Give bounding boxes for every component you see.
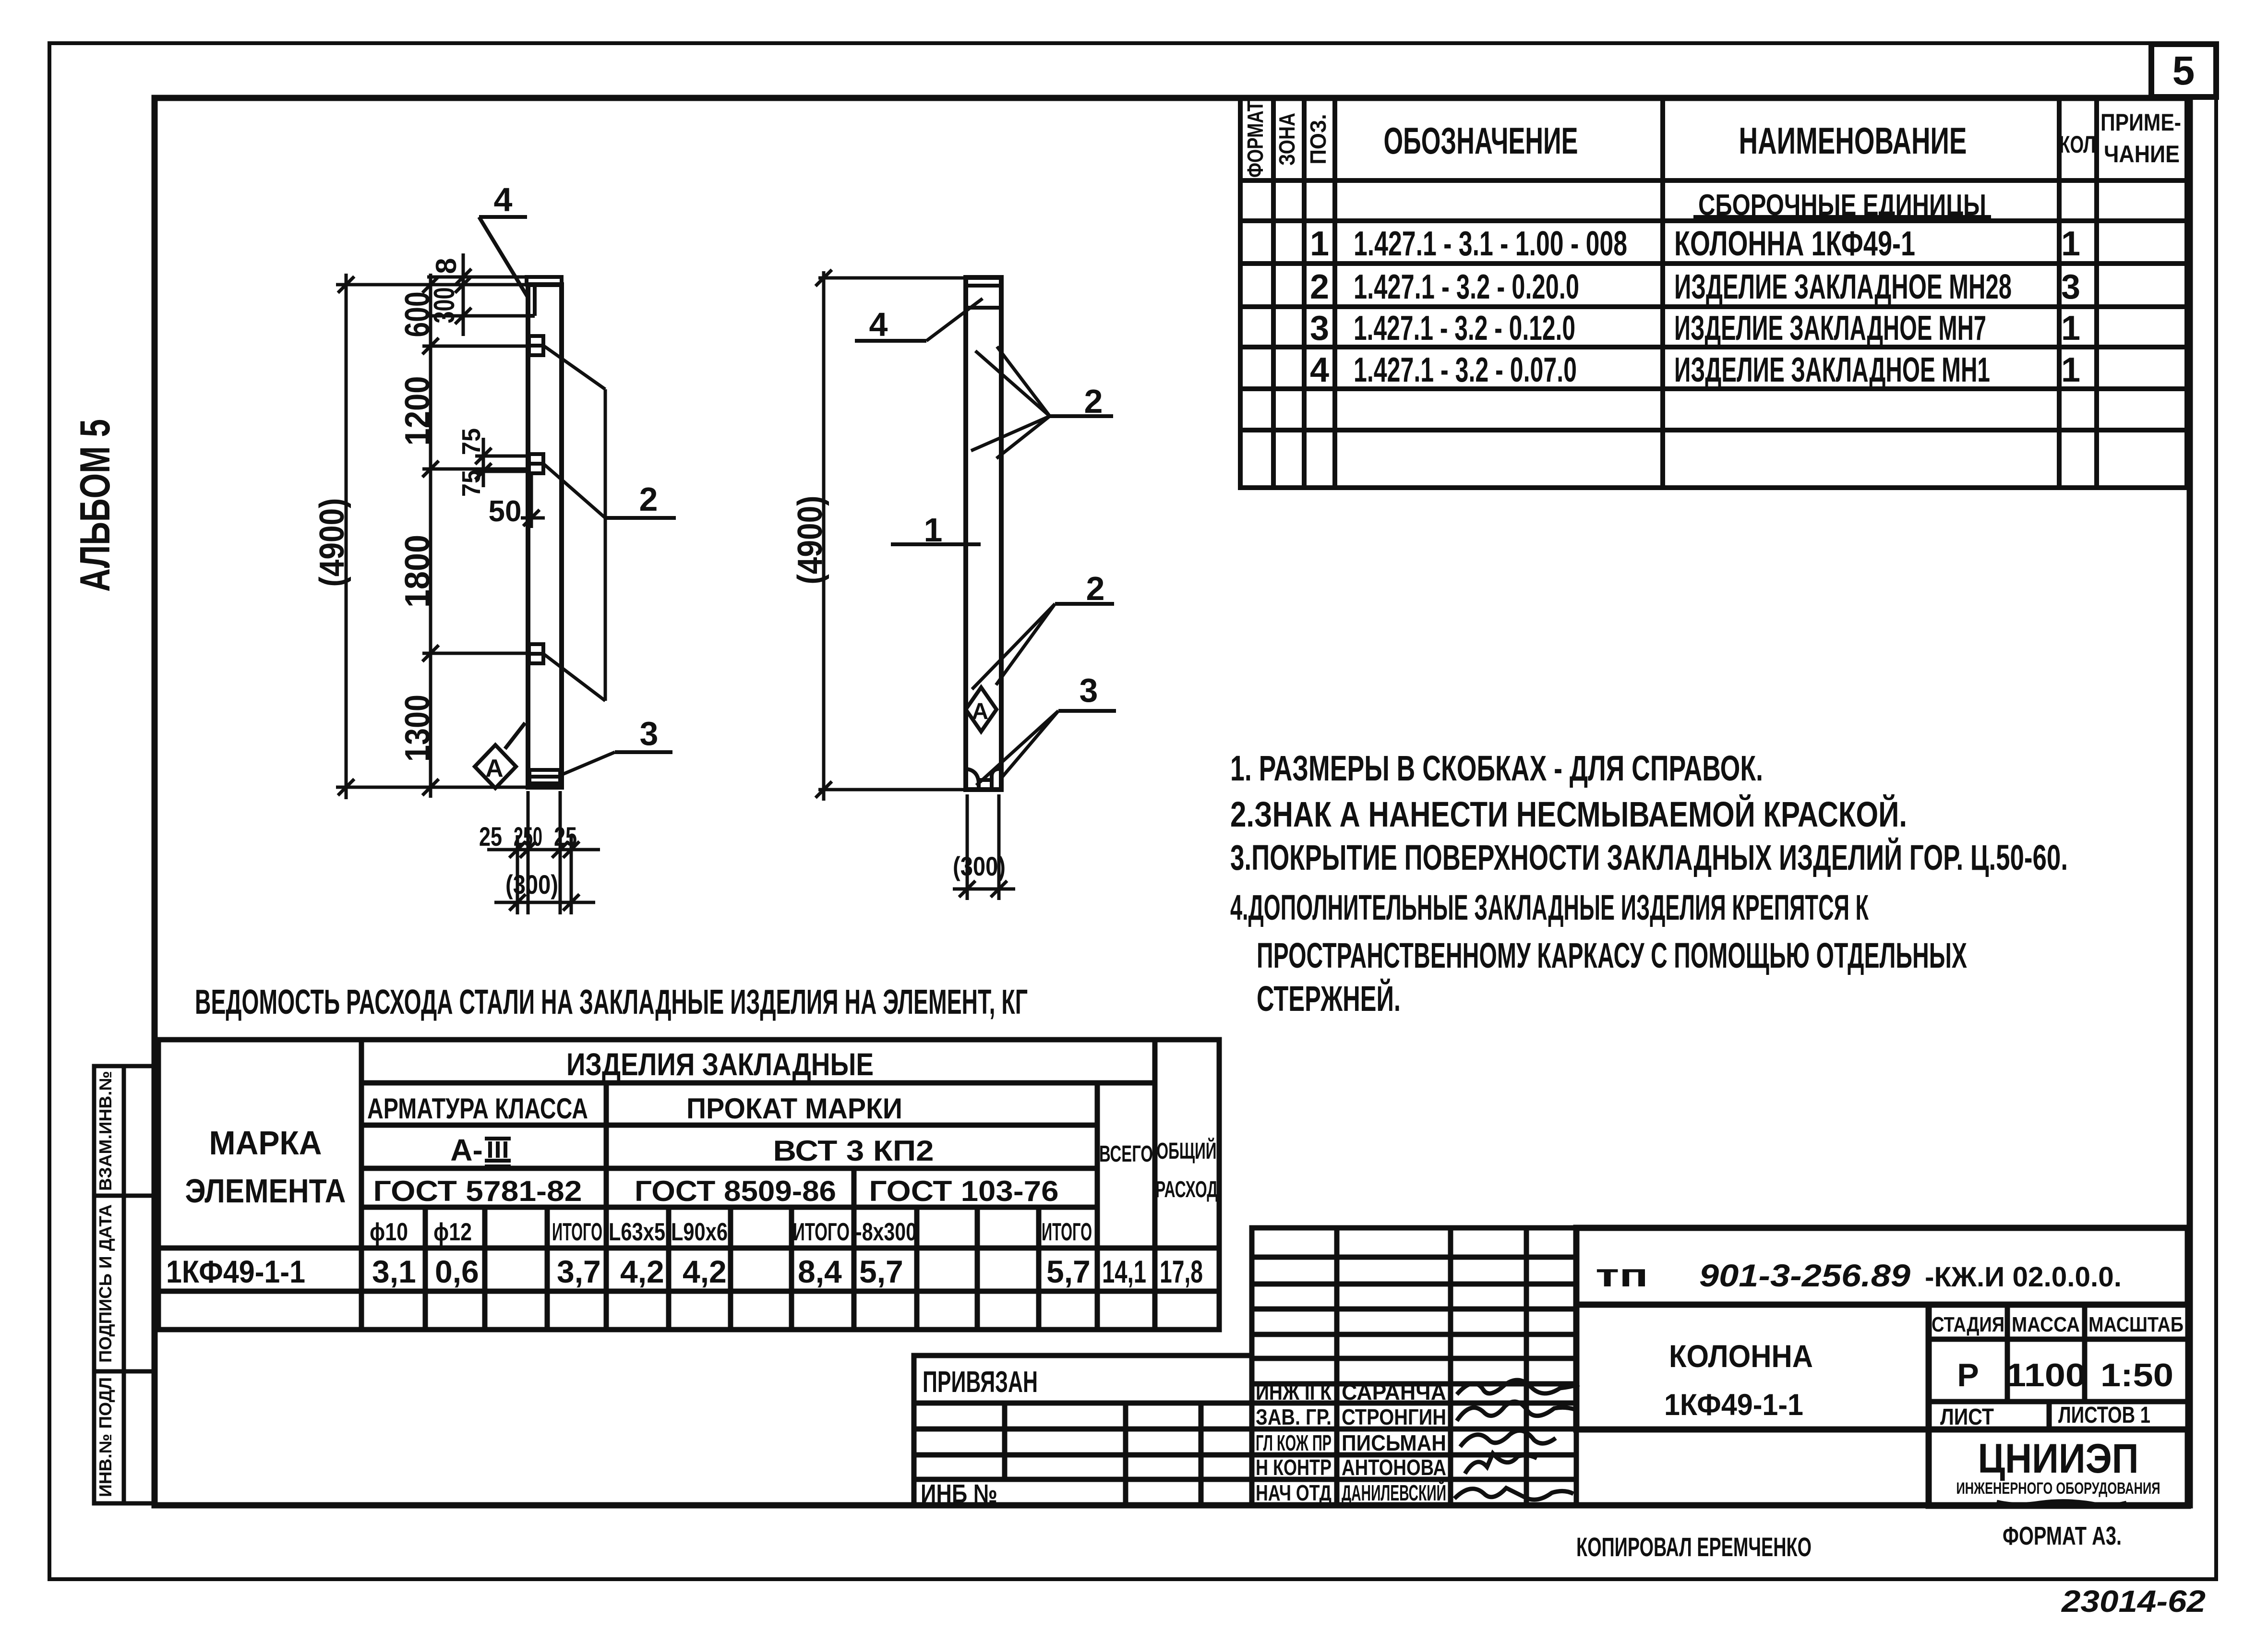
svg-text:2.ЗНАК А НАНЕСТИ НЕСМЫВА: 2.ЗНАК А НАНЕСТИ НЕСМЫВАЕМОЙ КРАСКОЙ. xyxy=(1230,794,1907,834)
leader 2 view1 xyxy=(543,346,676,701)
svg-text:5: 5 xyxy=(2172,48,2195,93)
document number cell xyxy=(1576,1228,2188,1305)
svg-text:ДАНИЛЕВСКИЙ: ДАНИЛЕВСКИЙ xyxy=(1342,1480,1446,1505)
svg-text:3: 3 xyxy=(640,715,659,752)
leader 3 view2 xyxy=(976,672,1116,785)
title block bottom left cell line xyxy=(1576,1427,1929,1433)
svg-text:1.427.1 - 3.1 - 1.00 - 008: 1.427.1 - 3.1 - 1.00 - 008 xyxy=(1354,225,1627,263)
svg-text:ИТОГО: ИТОГО xyxy=(552,1218,602,1246)
svg-text:3: 3 xyxy=(1310,309,1329,348)
svg-text:ГЛ КОЖ ПР: ГЛ КОЖ ПР xyxy=(1256,1430,1332,1455)
svg-text:1: 1 xyxy=(2061,309,2080,348)
svg-text:3: 3 xyxy=(1080,672,1098,709)
leader 2 upper view2 xyxy=(971,347,1113,458)
list row labels xyxy=(1940,1403,2150,1430)
svg-text:РАСХОД: РАСХОД xyxy=(1155,1177,1218,1202)
svg-text:1: 1 xyxy=(2061,225,2080,263)
svg-text:25: 25 xyxy=(554,821,577,852)
dim 75 75 view1 xyxy=(475,438,529,487)
svg-text:ФОРМАТ: ФОРМАТ xyxy=(1243,101,1268,178)
steel table grid xyxy=(158,1040,1219,1330)
svg-text:НАИМЕНОВАНИЕ: НАИМЕНОВАНИЕ xyxy=(1739,120,1967,162)
svg-text:ЗОНА: ЗОНА xyxy=(1274,113,1299,166)
leader 4 view2 xyxy=(855,299,983,343)
svg-text:ЦНИИЭП: ЦНИИЭП xyxy=(1978,1436,2139,1482)
stadia labels xyxy=(1932,1313,2184,1336)
spec row 1 kolonna xyxy=(1310,225,2080,263)
extension lines view2 xyxy=(818,278,966,790)
spec row 4 mn1 xyxy=(1310,351,2080,389)
stadia values xyxy=(1957,1357,2173,1393)
svg-text:ВСТ 3 КП2: ВСТ 3 КП2 xyxy=(773,1135,934,1167)
svg-text:КОЛ: КОЛ xyxy=(2059,131,2096,158)
svg-text:3.ПОКРЫТИЕ ПОВЕРХНОСТИ ЗАКЛА: 3.ПОКРЫТИЕ ПОВЕРХНОСТИ ЗАКЛАДНЫХ ИЗДЕЛИЙ… xyxy=(1230,837,2068,877)
svg-text:ИНВ.№ ПОДЛ: ИНВ.№ ПОДЛ xyxy=(96,1377,115,1497)
bottom extension lines view2 xyxy=(967,794,999,900)
svg-text:14,1: 14,1 xyxy=(1102,1254,1146,1289)
drawing frame xyxy=(155,98,2190,1505)
dim 4900 line view2 xyxy=(822,271,826,801)
svg-text:МАРКА: МАРКА xyxy=(209,1124,322,1162)
svg-text:5,7: 5,7 xyxy=(1046,1254,1091,1289)
steel table headers xyxy=(185,1046,1218,1210)
svg-text:ИНБ №: ИНБ № xyxy=(921,1479,997,1508)
svg-text:5,7: 5,7 xyxy=(859,1254,903,1289)
steel table subheaders xyxy=(370,1218,1092,1246)
svg-text:901-3-256.89: 901-3-256.89 xyxy=(1699,1258,1910,1293)
svg-text:1100: 1100 xyxy=(2005,1357,2086,1393)
svg-text:-8x300: -8x300 xyxy=(855,1218,917,1246)
svg-text:-КЖ.И 02.0.0.0.: -КЖ.И 02.0.0.0. xyxy=(1925,1261,2122,1293)
svg-text:3,7: 3,7 xyxy=(557,1254,601,1289)
stamp box inv no podl xyxy=(94,1371,155,1503)
svg-text:250: 250 xyxy=(514,821,542,852)
svg-text:ИТОГО: ИТОГО xyxy=(793,1218,850,1246)
svg-text:Р: Р xyxy=(1957,1357,1979,1393)
svg-text:1. РАЗМЕРЫ В СКОБКАХ - ДЛЯ: 1. РАЗМЕРЫ В СКОБКАХ - ДЛЯ СПРАВОК. xyxy=(1230,748,1763,788)
spec subtitle sborochnye edinitsy xyxy=(1693,189,1991,222)
svg-text:2: 2 xyxy=(1310,268,1329,306)
sign A diamond view1 xyxy=(475,723,525,788)
top plate lines view2 xyxy=(966,286,1001,308)
svg-text:ВЗАМ.ИНВ.№: ВЗАМ.ИНВ.№ xyxy=(96,1071,115,1191)
svg-text:СТАДИЯ: СТАДИЯ xyxy=(1932,1313,2004,1336)
svg-text:ОБОЗНАЧЕНИЕ: ОБОЗНАЧЕНИЕ xyxy=(1384,120,1578,162)
stadia massa masshtab cells xyxy=(1929,1305,2188,1429)
svg-text:4.ДОПОЛНИТЕЛЬНЫЕ ЗАКЛАДНЫЕ И: 4.ДОПОЛНИТЕЛЬНЫЕ ЗАКЛАДНЫЕ ИЗДЕЛИЯ КРЕПЯ… xyxy=(1230,888,1869,927)
svg-text:ПИСЬМАН: ПИСЬМАН xyxy=(1342,1430,1446,1455)
svg-text:4,2: 4,2 xyxy=(683,1254,727,1289)
svg-text:(300): (300) xyxy=(505,869,558,900)
dim (300) line view1 xyxy=(494,901,595,904)
svg-text:1300: 1300 xyxy=(398,695,437,762)
svg-text:КОПИРОВАЛ ЕРЕМЧЕНКО: КОПИРОВАЛ ЕРЕМЧЕНКО xyxy=(1576,1532,1812,1562)
svg-text:2: 2 xyxy=(639,480,658,518)
svg-text:2: 2 xyxy=(1086,570,1105,607)
steel table data row xyxy=(166,1254,1203,1289)
svg-text:1800: 1800 xyxy=(398,535,437,608)
signature row n kontr xyxy=(1256,1455,1446,1480)
svg-text:(4900): (4900) xyxy=(313,498,351,587)
svg-text:1КФ49-1-1: 1КФ49-1-1 xyxy=(166,1254,305,1289)
svg-text:ИЗДЕЛИЯ ЗАКЛАДНЫЕ: ИЗДЕЛИЯ ЗАКЛАДНЫЕ xyxy=(566,1046,874,1082)
svg-text:ИЗДЕЛИЕ ЗАКЛАДНОЕ МН7: ИЗДЕЛИЕ ЗАКЛАДНОЕ МН7 xyxy=(1674,309,1986,348)
svg-text:8,4: 8,4 xyxy=(798,1254,842,1289)
svg-text:4: 4 xyxy=(494,181,513,218)
svg-text:ВСЕГО: ВСЕГО xyxy=(1099,1141,1153,1167)
svg-text:ЭЛЕМЕНТА: ЭЛЕМЕНТА xyxy=(185,1172,346,1210)
svg-text:ПРИВЯЗАН: ПРИВЯЗАН xyxy=(923,1366,1038,1399)
signature row nach otd xyxy=(1256,1480,1446,1505)
svg-text:ЗАВ. ГР.: ЗАВ. ГР. xyxy=(1256,1404,1332,1429)
signature row gl kozh pr xyxy=(1256,1430,1446,1455)
svg-text:1.427.1 - 3.2 - 0.07.0: 1.427.1 - 3.2 - 0.07.0 xyxy=(1354,351,1577,389)
bottom extension lines view1 xyxy=(517,791,571,914)
top rib notch view1 xyxy=(528,285,535,316)
svg-text:ПРИМЕ-: ПРИМЕ- xyxy=(2100,109,2181,136)
svg-text:4: 4 xyxy=(1310,351,1329,389)
svg-text:1.427.1 - 3.2 - 0.12.0: 1.427.1 - 3.2 - 0.12.0 xyxy=(1354,309,1575,348)
spec row 2 mn28 xyxy=(1310,268,2080,306)
signature row inzh xyxy=(1256,1380,1446,1404)
dim 4900 line view1 xyxy=(345,274,348,799)
svg-text:1200: 1200 xyxy=(398,376,437,446)
svg-text:ИТОГО: ИТОГО xyxy=(1042,1218,1092,1246)
column view2 body xyxy=(966,277,1001,790)
svg-text:8: 8 xyxy=(430,258,462,274)
bottom anchor feet view2 xyxy=(966,769,1001,790)
column view1 body xyxy=(528,285,562,787)
svg-text:ϕ12: ϕ12 xyxy=(433,1218,472,1246)
svg-text:3,1: 3,1 xyxy=(372,1254,416,1289)
svg-text:ИНЖ II К: ИНЖ II К xyxy=(1256,1380,1332,1404)
svg-text:75: 75 xyxy=(457,428,486,455)
leader 3 view1 xyxy=(562,715,672,775)
svg-text:ПРОСТРАНСТВЕННОМУ КАРКАСУ С: ПРОСТРАНСТВЕННОМУ КАРКАСУ С ПОМОЩЬЮ ОТДЕ… xyxy=(1257,936,1967,975)
dim 25 250 25 line view1 xyxy=(487,848,600,852)
svg-text:ЧАНИЕ: ЧАНИЕ xyxy=(2104,141,2180,168)
stamp box vzam inv xyxy=(94,1066,155,1196)
svg-text:L63x5: L63x5 xyxy=(609,1218,665,1246)
svg-text:САРАНЧА: САРАНЧА xyxy=(1342,1380,1446,1404)
signature row zav gr xyxy=(1256,1404,1446,1429)
svg-text:1: 1 xyxy=(1310,225,1329,263)
svg-text:23014-62: 23014-62 xyxy=(2061,1584,2206,1619)
svg-text:(4900): (4900) xyxy=(791,496,829,585)
svg-text:17,8: 17,8 xyxy=(1160,1254,1203,1289)
svg-text:ПРОКАТ МАРКИ: ПРОКАТ МАРКИ xyxy=(686,1092,902,1125)
svg-text:4,2: 4,2 xyxy=(620,1254,664,1289)
svg-text:3: 3 xyxy=(2061,268,2080,306)
dim 50 view1 xyxy=(530,475,533,528)
top plate MH1 view1 xyxy=(527,277,562,285)
svg-text:ИЗДЕЛИЕ ЗАКЛАДНОЕ МН28: ИЗДЕЛИЕ ЗАКЛАДНОЕ МН28 xyxy=(1674,268,2012,306)
svg-text:ФОРМАТ А3.: ФОРМАТ А3. xyxy=(2003,1522,2122,1550)
svg-text:АРМАТУРА КЛАССА: АРМАТУРА КЛАССА xyxy=(367,1092,588,1125)
svg-text:АЛЬБОМ 5: АЛЬБОМ 5 xyxy=(71,419,119,592)
svg-text:тп: тп xyxy=(1596,1257,1648,1294)
svg-text:А-: А- xyxy=(450,1133,483,1167)
svg-text:ГОСТ 8509-86: ГОСТ 8509-86 xyxy=(635,1175,836,1207)
tsniiep cell xyxy=(1929,1429,2188,1506)
svg-text:КОЛОННА: КОЛОННА xyxy=(1669,1338,1813,1374)
name cell kolonna xyxy=(1576,1305,1929,1429)
svg-text:1.427.1 - 3.2 - 0.20.0: 1.427.1 - 3.2 - 0.20.0 xyxy=(1354,268,1579,306)
svg-text:МАССА: МАССА xyxy=(2012,1313,2080,1336)
svg-text:50: 50 xyxy=(489,495,522,528)
svg-text:25: 25 xyxy=(479,821,502,852)
svg-text:КОЛОННА 1КФ49-1: КОЛОННА 1КФ49-1 xyxy=(1674,225,1915,263)
leader 4 view1 xyxy=(479,181,528,298)
svg-text:ИНЖЕНЕРНОГО ОБОРУДОВАНИЯ: ИНЖЕНЕРНОГО ОБОРУДОВАНИЯ xyxy=(1956,1479,2160,1498)
signature table grid xyxy=(1252,1228,1576,1506)
dim chain line view1 xyxy=(429,274,432,798)
svg-text:НАЧ ОТД: НАЧ ОТД xyxy=(1256,1480,1332,1505)
svg-text:0,6: 0,6 xyxy=(435,1254,479,1289)
svg-text:ГОСТ 5781-82: ГОСТ 5781-82 xyxy=(373,1175,582,1207)
svg-text:1: 1 xyxy=(2061,351,2080,389)
svg-text:Н КОНТР: Н КОНТР xyxy=(1256,1455,1332,1480)
svg-text:А: А xyxy=(485,755,504,782)
dim 8 and 300 mini line view1 xyxy=(462,253,465,336)
dim (300) line view2 xyxy=(953,888,1015,891)
privyazan box xyxy=(914,1356,1252,1506)
signature squiggles xyxy=(1454,1380,1579,1500)
svg-text:ИЗДЕЛИЕ ЗАКЛАДНОЕ МН1: ИЗДЕЛИЕ ЗАКЛАДНОЕ МН1 xyxy=(1674,351,1990,389)
bottom plate MH7 view1 xyxy=(529,770,560,783)
svg-text:(300): (300) xyxy=(953,851,1006,881)
sign A diamond view2 xyxy=(966,687,996,732)
svg-text:ГОСТ 103-76: ГОСТ 103-76 xyxy=(869,1175,1059,1207)
leader 1 view2 xyxy=(891,511,981,549)
A-III roman numeral xyxy=(485,1139,511,1166)
svg-text:ЛИСТОВ 1: ЛИСТОВ 1 xyxy=(2058,1403,2150,1428)
svg-text:4: 4 xyxy=(869,306,888,343)
svg-text:1КФ49-1-1: 1КФ49-1-1 xyxy=(1664,1388,1803,1422)
svg-text:ОБЩИЙ: ОБЩИЙ xyxy=(1157,1138,1217,1164)
svg-text:1:50: 1:50 xyxy=(2100,1357,2173,1393)
spec table grid xyxy=(1240,98,2187,488)
svg-text:ПОДПИСЬ И ДАТА: ПОДПИСЬ И ДАТА xyxy=(96,1204,115,1363)
svg-text:300: 300 xyxy=(428,288,460,324)
svg-text:А: А xyxy=(972,699,989,724)
svg-text:ЛИСТ: ЛИСТ xyxy=(1940,1404,1994,1430)
svg-text:L90x6: L90x6 xyxy=(671,1218,728,1246)
embedded plate mark 1 view1 xyxy=(529,336,543,355)
svg-text:АНТОНОВА: АНТОНОВА xyxy=(1342,1455,1446,1480)
stamp box podpis i data xyxy=(94,1196,155,1371)
extension lines view1 xyxy=(336,277,529,787)
page number box xyxy=(2151,44,2216,97)
svg-text:ВЕДОМОСТЬ РАСХОДА СТАЛИ НА: ВЕДОМОСТЬ РАСХОДА СТАЛИ НА ЗАКЛАДНЫЕ ИЗД… xyxy=(195,983,1028,1021)
embedded plate mark 3 view1 xyxy=(529,644,543,663)
leader 2 lower view2 xyxy=(972,570,1114,689)
spec header labels xyxy=(1243,101,2181,178)
svg-text:75: 75 xyxy=(457,470,486,497)
spec row 3 mn7 xyxy=(1310,309,2080,348)
svg-text:СТРОНГИН: СТРОНГИН xyxy=(1342,1404,1446,1429)
embedded plate mark 2 view1 xyxy=(529,454,543,473)
svg-text:МАСШТАБ: МАСШТАБ xyxy=(2088,1313,2184,1336)
svg-text:СТЕРЖНЕЙ.: СТЕРЖНЕЙ. xyxy=(1257,978,1401,1019)
svg-text:ϕ10: ϕ10 xyxy=(370,1218,408,1246)
svg-text:ПОЗ.: ПОЗ. xyxy=(1306,114,1331,165)
